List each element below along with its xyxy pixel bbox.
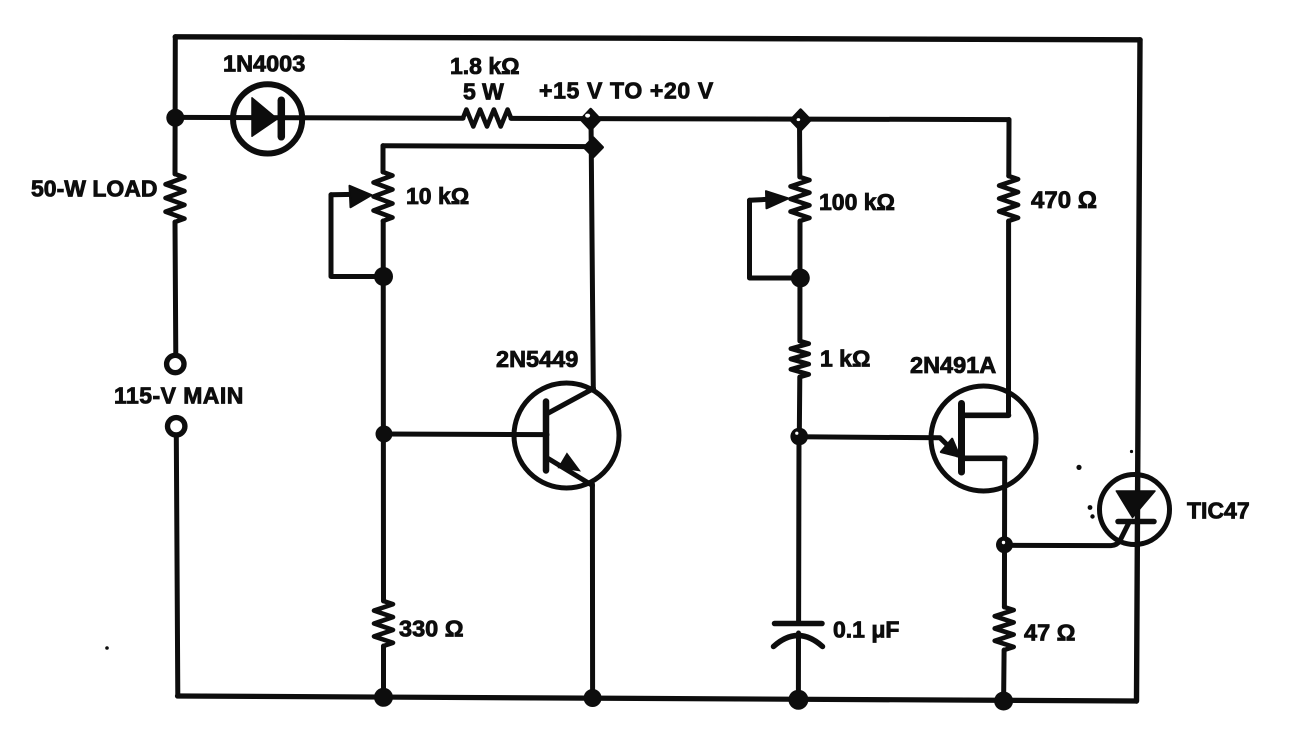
transistor Q1 collector lead	[547, 389, 594, 415]
wire collector drop from +15V node	[591, 119, 593, 389]
potentiometer 100k wiper arrowhead	[766, 191, 789, 208]
transistor Q2 base-one lead	[962, 455, 1005, 461]
svg-text:100 kΩ: 100 kΩ	[819, 189, 895, 215]
junction dot 10k wiper to bottom	[374, 267, 393, 286]
wire left rail upper	[173, 37, 179, 356]
capacitor 0.1uF top plate	[775, 621, 823, 627]
svg-text:1 kΩ: 1 kΩ	[820, 346, 870, 372]
SCR TIC47 cathode bar	[1118, 519, 1154, 525]
svg-text:47 Ω: 47 Ω	[1024, 620, 1076, 646]
svg-text:2N491A: 2N491A	[910, 352, 996, 378]
junction diamond 100k branch node B	[791, 110, 810, 130]
potentiometer 100k wiper return bracket	[750, 200, 801, 278]
transistor Q2 UJT 2N491A circle	[931, 386, 1036, 491]
wire gate of TIC47	[1005, 524, 1129, 546]
SCR TIC47 anode triangle	[1116, 491, 1155, 518]
wire 10k pot branch	[381, 146, 387, 698]
junction dot bottom rail at Q1 emitter	[584, 689, 602, 707]
ink speck above TIC47	[1076, 465, 1081, 470]
wire UJT B1 to 47 ohm to bottom rail	[1004, 458, 1005, 701]
terminal lower 115-V MAIN	[168, 418, 185, 435]
resistor 50-W LOAD	[166, 174, 185, 222]
resistor 470 Ohm	[999, 176, 1018, 221]
resistor 330 Ohm	[374, 601, 393, 646]
wire bottom rail	[178, 696, 1137, 701]
junction dot 100k wiper to bottom	[791, 269, 810, 288]
junction dot left rail at +15V line	[166, 109, 184, 127]
transistor Q1 2N5449 circle	[514, 383, 619, 488]
ink speck left of TIC47 upper	[1088, 505, 1093, 510]
svg-text:+15 V TO +20 V: +15 V TO +20 V	[539, 78, 714, 104]
ink speck left of TIC47 lower	[1090, 514, 1094, 518]
transistor Q1 emitter arrowhead	[558, 452, 582, 471]
terminal upper 115-V MAIN	[167, 355, 184, 372]
resistor 47 Ohm	[995, 607, 1014, 650]
potentiometer 100k wiper arrow stub	[750, 199, 769, 200]
diode 1N4003 triangle	[252, 98, 277, 136]
capacitor 0.1uF curved bottom plate	[774, 636, 823, 647]
ink speck on anode wire	[1130, 450, 1133, 453]
wire 100k pot branch	[797, 119, 803, 436]
wire emitter of 2N5449 to bottom rail	[590, 484, 595, 698]
transistor Q2 emitter arrowhead	[941, 439, 959, 457]
svg-text:TIC47: TIC47	[1187, 498, 1250, 524]
svg-text:330 Ω: 330 Ω	[399, 616, 464, 642]
junction dot gate node	[996, 536, 1013, 553]
diode 1N4003 circle	[233, 84, 302, 153]
svg-text:5 W: 5 W	[463, 79, 504, 105]
SCR TIC47 circle	[1100, 475, 1170, 545]
potentiometer 10k wiper arrow stub	[331, 192, 353, 197]
junction diamond +15V node A	[581, 110, 600, 130]
potentiometer 100 kOhm resistor body	[791, 177, 810, 221]
wire main horizontal +15V line	[175, 117, 1009, 119]
junction dot bottom rail at capacitor	[788, 690, 808, 710]
wire top rail	[175, 37, 1140, 40]
resistor 1 kOhm	[791, 341, 809, 377]
transistor Q2 base bar	[958, 404, 965, 473]
wire pot1 top link	[383, 143, 594, 149]
svg-text:115-V MAIN: 115-V MAIN	[114, 383, 244, 409]
svg-text:2N5449: 2N5449	[496, 346, 578, 372]
wire left rail lower	[176, 435, 178, 696]
junction dot bottom rail at 330 ohm	[374, 688, 393, 707]
svg-text:1N4003: 1N4003	[223, 51, 305, 77]
potentiometer 10k wiper return bracket	[331, 195, 384, 277]
svg-text:0.1 μF: 0.1 μF	[833, 617, 899, 643]
wire right rail	[1137, 40, 1141, 701]
transistor Q1 emitter lead	[547, 458, 593, 486]
diode 1N4003 cathode bar	[278, 100, 286, 137]
junction dot pot1 top link	[584, 138, 602, 157]
ink speck left bottom	[105, 646, 109, 650]
transistor Q1 base bar	[543, 402, 550, 471]
svg-text:50-W LOAD: 50-W LOAD	[31, 176, 158, 202]
wire capacitor branch	[796, 436, 802, 700]
potentiometer 10k wiper arrowhead	[350, 186, 372, 207]
svg-text:1.8 kΩ: 1.8 kΩ	[450, 53, 520, 79]
svg-text:10 kΩ: 10 kΩ	[406, 183, 469, 209]
junction dot base of Q1	[376, 426, 393, 443]
wire 470 ohm branch	[1006, 120, 1012, 414]
svg-text:470 Ω: 470 Ω	[1031, 187, 1097, 214]
transistor Q2 base-two lead	[962, 412, 1009, 418]
wire base of 2N5449	[384, 432, 547, 438]
junction dot UJT emitter node	[790, 428, 808, 446]
junction dot bottom rail at 47 ohm	[994, 692, 1013, 711]
potentiometer 10 kOhm resistor body	[374, 172, 393, 221]
wire UJT emitter	[799, 437, 957, 455]
resistor 1.8 kOhm 5 W	[463, 110, 511, 127]
